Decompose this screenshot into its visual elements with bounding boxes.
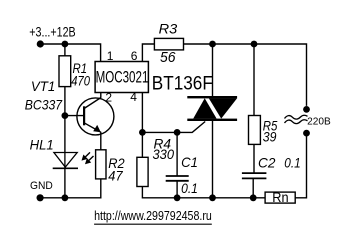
AC source 220V — [285, 106, 331, 137]
svg-text:0.1: 0.1 — [284, 155, 300, 171]
node base junction — [62, 112, 85, 119]
node junction R1 top — [62, 41, 69, 56]
triac VS1 BT136F — [152, 74, 237, 198]
wire +V rail to MOC pin1 — [40, 44, 100, 62]
wire MOC pin6 to R3 — [142, 44, 154, 62]
node +3...+12V label — [29, 24, 75, 39]
pin 4 — [130, 90, 137, 104]
svg-text:56: 56 — [160, 50, 176, 66]
svg-text:Rn: Rn — [272, 190, 288, 205]
svg-text:39: 39 — [263, 129, 277, 145]
node gate junction pin4 — [139, 129, 146, 136]
resistor R3 — [154, 21, 183, 66]
load Rn — [265, 190, 295, 205]
svg-text:HL1: HL1 — [30, 137, 54, 153]
capacitor C1 — [166, 132, 198, 197]
HL1 light arrows — [82, 152, 94, 164]
wire MOC pin4 down — [141, 93, 143, 133]
node GND label — [30, 180, 53, 192]
svg-text:330: 330 — [153, 146, 175, 162]
svg-text:BT136F: BT136F — [152, 74, 213, 95]
wire top rail R3 to AC source — [184, 44, 307, 106]
resistor R5 — [249, 116, 278, 145]
wire R4 bottom to rail — [142, 187, 265, 198]
LED HL1 — [30, 137, 78, 198]
svg-text:220В: 220В — [307, 116, 331, 128]
wire R1 bottom to base junction to HL1 — [64, 87, 66, 153]
svg-text:4: 4 — [130, 90, 137, 104]
optocoupler U1 MOC3021 — [95, 62, 148, 93]
wire Rn to AC source bottom — [295, 133, 306, 198]
pin 6 — [131, 49, 138, 63]
node R5 top junction — [251, 41, 258, 116]
svg-text:0.1: 0.1 — [181, 180, 198, 196]
svg-text:C1: C1 — [181, 154, 198, 170]
svg-text:1: 1 — [107, 49, 114, 63]
wire R4 top — [141, 132, 143, 157]
node C1 bottom junction — [174, 194, 181, 201]
terminal +V — [37, 40, 44, 47]
wire collector to MOC pin2 — [100, 93, 102, 98]
url caption — [94, 208, 212, 224]
svg-text:C2: C2 — [258, 154, 276, 170]
wire R5 to C2 — [253, 144, 255, 173]
svg-text:VT1: VT1 — [31, 78, 55, 94]
wire gate net to triac gate — [142, 122, 205, 133]
svg-text:470: 470 — [71, 72, 90, 88]
wire GND rail — [40, 179, 101, 198]
svg-text:GND: GND — [30, 180, 53, 192]
svg-text:+3...+12В: +3...+12В — [29, 24, 75, 39]
node C2 bottom junction — [250, 194, 257, 201]
svg-text:MOC3021: MOC3021 — [96, 68, 149, 87]
capacitor C2 — [242, 154, 301, 198]
pin 1 — [107, 49, 114, 63]
svg-text:http://www.299792458.ru: http://www.299792458.ru — [94, 208, 212, 223]
svg-text:R3: R3 — [159, 21, 178, 37]
wire emitter to R2 — [100, 132, 102, 150]
node C1 top junction — [174, 129, 181, 136]
pin 2 — [105, 90, 112, 104]
svg-text:2: 2 — [105, 90, 112, 104]
resistor R4 — [137, 135, 174, 186]
transistor VT1 BC337 — [25, 78, 114, 135]
terminal GND — [37, 194, 44, 201]
svg-text:BC337: BC337 — [25, 96, 63, 112]
node triac bottom junction — [209, 194, 216, 201]
resistor R1 — [59, 56, 90, 89]
svg-text:6: 6 — [131, 49, 138, 63]
resistor R2 — [96, 150, 125, 184]
node HL1 bottom junction — [62, 194, 69, 201]
svg-text:47: 47 — [108, 167, 123, 183]
node triac top junction — [209, 41, 216, 97]
